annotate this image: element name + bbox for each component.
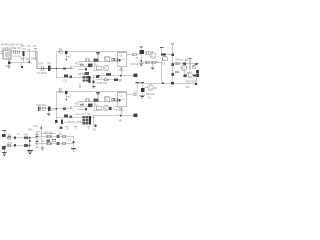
power flag: +V ch2 [96,91,100,93]
junction [29,137,31,139]
svg-text:RY1 12V: RY1 12V [82,113,92,116]
wire: junction vertical [29,138,31,150]
junction [73,141,75,143]
svg-text:100n: 100n [31,58,37,60]
wire: vertical branch [94,62,96,70]
svg-text:LM: LM [121,99,124,101]
junction: bus dot [56,68,58,70]
resistor R46 [56,135,59,138]
wire: line R y143.4 [37,142,74,144]
capacitor C1 [14,50,16,54]
capacitor C6 [65,51,68,54]
resistor R39 [69,116,72,118]
wire: ch1 rail y66 [73,65,93,67]
diode D3 [59,51,63,53]
wire: y110 [93,109,103,111]
junction [56,108,58,110]
resistor R1 [86,59,89,62]
ground: left [41,143,43,147]
transistor Q4 [181,65,187,71]
capacitor C29 [14,137,16,139]
resistor R3 [115,58,117,61]
svg-text:C30: C30 [33,125,38,128]
ground symbol [140,95,145,98]
resistor R9 [85,72,90,75]
wire: ch2 supply node [37,108,73,110]
resistor R6 [63,67,66,69]
wire: stub [70,106,72,109]
wire: to Q6 [144,86,147,88]
wire: stub [70,66,72,68]
connector J2 body [2,134,5,137]
transistor Q7 [104,96,110,102]
capacitor C31 [35,142,38,144]
wire [196,74,198,84]
svg-text:4n7: 4n7 [67,95,72,98]
capacitor C21 [65,91,68,94]
capacitor C12 [139,50,144,54]
bus end cap [55,120,57,123]
wire: ground node stem [21,63,23,66]
wire: lower right rail [136,82,198,84]
power flag [140,46,143,48]
wire: C6 down [65,54,67,59]
resistor R2 [112,58,114,61]
svg-text:C13 22u: C13 22u [130,63,140,66]
wire: stub [79,84,81,88]
svg-text:C11: C11 [63,79,68,82]
ground symbol [71,148,76,151]
ground rail [9,62,30,64]
svg-text:L1: L1 [100,77,103,80]
transistor Q1 [104,56,110,62]
resistor R25 [196,70,199,73]
svg-text:T2: T2 [180,60,183,62]
svg-text:R42: R42 [24,135,29,137]
svg-text:F1: F1 [162,64,165,66]
capacitor C9 [85,68,87,70]
svg-text:R30 10k: R30 10k [146,93,156,96]
connector J3 pin flag [3,145,6,147]
junction [162,82,164,84]
resistor R13 [133,53,136,56]
resistor R37 [63,107,66,109]
connector J3 body [2,147,5,150]
ground symbol [92,86,96,88]
svg-text:D2: D2 [47,62,51,65]
resistor R53 [60,127,63,130]
wire: ch2 output line [93,115,134,117]
component on bus: K3 [171,73,174,76]
svg-text:MUTE: MUTE [68,122,75,124]
svg-text:R58: R58 [76,114,81,116]
resistor R47 [62,135,65,137]
capacitor C2 [18,50,20,54]
fuse F1 [162,56,168,61]
diode pair [183,63,186,65]
wire: +V feed down to channel rail [36,52,38,69]
capacitor C10 [96,75,99,78]
resistor box [96,106,101,110]
svg-text:8R: 8R [119,120,122,122]
resistor R26 [193,75,196,77]
transistor Q5 [187,72,193,78]
transistor Q2 [103,65,109,71]
resistor R43 [8,144,11,147]
power flag [188,57,191,59]
wire: U2 out stem [120,110,122,115]
capacitor C5 (polarized) [42,66,44,71]
resistor R45 [47,135,51,138]
junction [66,99,68,101]
U1 output flag [119,67,123,69]
inductor L1 [104,79,108,81]
IC U2 tab [118,99,120,102]
junction [195,83,197,85]
wire: zobel line [95,79,122,81]
svg-text:LM: LM [121,59,124,61]
svg-text:5W: 5W [186,86,190,89]
wire down [152,64,154,67]
wire: U1 out stem [120,70,122,75]
resistor R31 [42,107,45,110]
wire down [48,111,50,113]
svg-text:8R: 8R [119,81,122,83]
svg-text:C17: C17 [134,90,139,93]
transistor Q6 [148,85,154,91]
capacitor C11 [64,74,68,77]
wire: ch1 second rail [78,61,118,63]
wire: ch1 output line [93,75,134,77]
svg-text:1k: 1k [156,60,159,63]
svg-text:5V1: 5V1 [52,110,57,112]
resistor R48 [46,139,50,142]
resistor R42 [24,137,28,140]
capacitor C23 [88,104,93,107]
resistor R11 [69,76,72,78]
resistor R12 [114,78,118,81]
rectifier D1 [22,51,24,56]
resistor R36 [80,104,84,106]
svg-text:C3: C3 [27,45,31,48]
resistor R16 [152,61,155,64]
svg-text:C4: C4 [33,45,37,48]
feedback ch2: wire from U2 [127,94,133,96]
connector: speaker out ch1 [134,74,138,78]
capacitor lead marks [35,147,39,149]
svg-text:C33: C33 [66,139,71,141]
svg-text:Q6: Q6 [154,87,158,90]
component on bus: K1 [171,53,174,56]
ground symbol [139,63,143,65]
wire: line y109.3 [78,108,86,110]
capacitor C20 (polarized) [38,106,40,111]
capacitor C26 [64,114,68,117]
resistor R33 [112,98,114,101]
capacitor C30 [35,135,38,137]
capacitor C22 [94,99,99,102]
wire: ch2 top rail [56,91,117,93]
wire: ground stem [8,64,10,67]
IC U1 tab [118,59,120,62]
wire: input line R [5,144,30,146]
resistor R38 [133,93,136,95]
ground symbol (dark) [27,149,33,151]
svg-text:U1: U1 [119,55,123,58]
wire: mains pin N [1,53,3,55]
capacitor C17 body [141,88,144,92]
capacitor C25 [109,107,111,110]
wire: ch2 bottom rail [56,116,95,118]
wire: mains pin L [1,51,3,53]
svg-text:GND: GND [5,65,11,68]
resistor R21 [176,62,179,64]
wire down [141,92,143,95]
svg-text:1%: 1% [148,98,151,100]
capacitor C32 [14,144,16,146]
svg-text:BD: BD [185,60,189,62]
wire vertical [183,71,185,75]
wire: relay output vertical [93,76,95,86]
wire: line y69.3 [78,68,86,70]
transistor Q8 [103,105,109,111]
resistor R50 [47,142,51,145]
diode D6 [59,91,63,93]
resistor R14 [146,52,149,55]
wire: right bus [172,44,174,83]
svg-text:25A: 25A [22,47,26,50]
U2 output flag [119,107,123,109]
ground symbol [47,113,51,115]
svg-text:D1: D1 [22,45,26,48]
flag [87,126,90,128]
connector: speaker out ch2 [134,114,138,118]
wire: down right column [161,61,163,84]
connector J2 pin flag [3,130,6,132]
wire [189,64,191,70]
wire: transformer secondary to rectifier rail [11,51,37,53]
svg-text:R24: R24 [175,72,180,74]
fuse oval [114,106,120,110]
junction: C6 end [66,59,68,61]
junction [95,124,97,126]
svg-text:+35V: +35V [38,62,44,65]
wire: right vertical [73,136,75,148]
transistor Q3 [150,53,156,59]
IC U2 box [118,92,127,107]
relay block rows [82,116,85,118]
ground symbol [151,67,155,69]
svg-text:1k: 1k [42,141,45,143]
svg-text:R41: R41 [28,128,33,131]
svg-text:R: R [136,58,138,60]
wire: ch2 left bus [55,92,57,120]
wire: line L y136.4 [37,135,74,137]
capacitor C27 [61,120,63,125]
relay coil bar [89,116,91,125]
svg-text:B80: B80 [21,58,26,60]
wire: ch2 second rail [78,101,118,103]
resistor R15 [146,61,149,64]
svg-text:1R: 1R [193,64,196,66]
wire: ch1 supply node [37,68,73,70]
junction [98,75,100,77]
relay RY2 rows [82,76,85,78]
svg-text:C20 R31: C20 R31 [36,104,46,107]
diode D5 [48,107,51,111]
junction dot [29,140,31,142]
resistor R51 [56,142,59,145]
junction [140,60,142,62]
wire: cap branch vertical [36,131,38,146]
wire [136,54,139,56]
diode D2 [48,65,50,71]
capacitor C24 [85,108,87,110]
capacitor C8 [88,64,93,67]
wire: stub top [37,130,40,132]
wire: vertical x41 [40,126,42,143]
wire: down [140,54,142,60]
resistor R52 [62,142,65,144]
diode D4 on vertical [93,81,95,84]
ground symbol: transformer [8,59,10,61]
svg-text:4n7: 4n7 [67,55,72,58]
capacitor C14 (dark bar) [161,54,166,56]
wire: y133.6 [41,133,56,135]
svg-text:1k: 1k [17,134,20,136]
emitter resistor [183,74,186,77]
wire: C21 down [65,94,67,99]
resistor R27 [196,74,199,77]
svg-text:10u: 10u [26,58,31,60]
power flag: +V ch1 [96,51,100,53]
wire: input line L [5,137,37,139]
svg-text:L N PE FUSE T2A: L N PE FUSE T2A [1,47,22,50]
svg-text:10R 1W: 10R 1W [98,82,107,85]
resistor R23 [192,66,195,69]
svg-text:1k: 1k [58,131,61,133]
power flag: right [160,47,163,49]
junction [195,63,197,65]
junction [29,144,31,146]
capacitor C15 (T) [136,82,140,84]
resistor R32 [86,99,89,102]
resistor R44 [24,144,28,147]
svg-text:U2: U2 [119,95,123,98]
resistor R34 [115,98,117,101]
resistor R10 [106,73,111,76]
wire: vertical branch ch2 [94,102,96,110]
svg-text:NC: NC [93,130,97,132]
wire: relay right [93,115,95,126]
svg-text:Q3: Q3 [150,51,154,54]
feedback ch1: wire from U1 [127,54,133,56]
resistor network under Q1: box [96,66,101,70]
top mark [40,127,42,129]
capacitor C16 (T) [141,82,145,84]
junction [120,115,122,117]
wire: ch1 left bus [55,52,57,78]
wire: ch2 rail y106 [73,105,93,107]
transformer T1 [3,50,11,59]
junction dark [171,82,174,85]
relay RY2 coil bar [89,76,91,83]
resistor R40 [8,137,11,140]
ground symbol [2,153,7,156]
resistor R49 [52,140,55,142]
wire: right block rail [173,63,199,65]
svg-text:C5 1000u: C5 1000u [37,72,48,75]
small flags above network [66,126,69,128]
wire: ch1 top rail [56,51,117,53]
IC U1 box [118,52,127,67]
wire: y70 [93,69,103,71]
capacitor C3 [28,49,31,51]
junction: C3 ground [28,61,30,63]
svg-text:ST-BY: ST-BY [76,122,83,124]
wire: to right bus [166,54,172,56]
capacitor C4 [34,48,37,50]
junction [120,75,122,77]
junction: ground node [21,66,23,68]
capacitor C7 [94,59,99,62]
wire: ch1 bottom rail [56,76,95,78]
wire: J3 ground drop [3,150,5,153]
svg-text:10k: 10k [58,134,63,136]
wire: D1 to ground rail [22,56,24,63]
component on bus: K2 [171,63,174,66]
svg-text:IN L: IN L [8,135,13,137]
wire: rail y62.6 [141,62,161,64]
resistor R4 [80,64,84,66]
